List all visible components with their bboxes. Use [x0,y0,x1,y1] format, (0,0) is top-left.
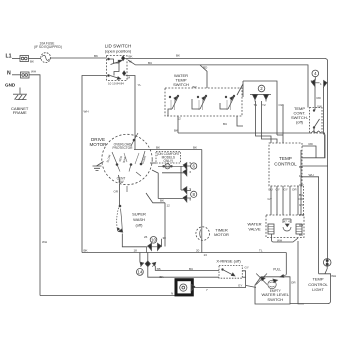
svg-text:1: 1 [320,82,322,86]
svg-text:GY: GY [238,283,242,287]
svg-text:BK: BK [156,146,160,150]
svg-text:GY: GY [245,266,249,270]
svg-text:BK: BK [160,275,164,279]
svg-text:OW: OW [279,103,284,107]
svg-text:SW: SW [118,180,123,184]
svg-text:PROTECTOR: PROTECTOR [113,146,134,150]
svg-text:YL: YL [138,83,142,87]
svg-text:L1: L1 [6,54,12,60]
svg-text:WH: WH [309,173,314,177]
svg-text:4: 4 [314,71,317,76]
svg-text:RD: RD [317,96,322,100]
svg-text:GY: GY [268,197,272,201]
svg-text:47: 47 [288,220,292,224]
svg-text:BU: BU [269,188,273,192]
svg-text:(off): (off) [135,223,143,228]
svg-text:(off): (off) [296,120,304,125]
svg-text:12: 12 [299,174,303,178]
svg-text:20: 20 [196,249,200,253]
svg-text:BK: BK [174,129,178,133]
svg-text:XB: XB [157,267,161,271]
svg-text:WH: WH [331,274,336,278]
svg-text:OR: OR [292,188,297,192]
svg-text:RD: RD [203,66,208,70]
svg-text:10 10 84 84: 10 10 84 84 [108,82,124,86]
svg-text:GY: GY [284,188,288,192]
svg-text:LIGHT: LIGHT [312,287,324,292]
svg-text:X-RINSE (off): X-RINSE (off) [216,259,241,264]
svg-text:GY: GY [276,188,280,192]
svg-text:N: N [7,71,11,77]
svg-text:PULL: PULL [273,268,281,272]
svg-text:30: 30 [163,236,167,240]
svg-text:TL: TL [259,248,263,252]
svg-text:BK: BK [84,249,88,253]
svg-text:BU: BU [148,61,152,65]
svg-text:FRAME: FRAME [13,110,27,115]
svg-text:BK: BK [176,53,180,57]
svg-text:OR: OR [114,190,119,194]
svg-text:12: 12 [167,203,171,207]
svg-text:CONTROL: CONTROL [274,161,297,166]
svg-text:6: 6 [192,164,195,169]
svg-text:RD: RD [299,223,304,227]
svg-text:26: 26 [144,235,148,239]
svg-text:18: 18 [134,249,138,253]
svg-text:(IF SO EQUIPPED): (IF SO EQUIPPED) [34,45,62,49]
svg-text:BK: BK [299,165,303,169]
svg-text:WH: WH [31,69,36,73]
svg-text:M: M [128,76,131,80]
svg-text:WH: WH [84,110,89,114]
svg-text:START: START [141,155,148,165]
svg-text:MOTOR: MOTOR [214,232,229,237]
svg-text:BK: BK [160,199,164,203]
svg-text:WH: WH [299,213,304,217]
svg-text:3W: 3W [192,85,197,89]
svg-text:9: 9 [190,187,192,191]
svg-text:(open position): (open position) [105,49,132,54]
svg-text:OR: OR [291,281,296,285]
svg-text:N: N [171,292,173,296]
svg-text:GY: GY [299,203,303,207]
svg-text:12: 12 [178,117,182,121]
svg-text:BU: BU [223,122,227,126]
svg-text:GND: GND [5,83,16,88]
svg-text:11: 11 [166,165,169,169]
svg-text:BK: BK [30,60,34,64]
svg-text:BK: BK [193,146,197,150]
svg-text:Y2: Y2 [262,103,266,107]
svg-text:SWITCH: SWITCH [267,297,283,302]
svg-text:2: 2 [260,86,263,91]
svg-text:BU: BU [189,267,193,271]
svg-text:T1: T1 [254,103,258,107]
svg-text:7: 7 [206,288,208,292]
svg-text:TEMP: TEMP [279,156,292,161]
svg-text:SW: SW [317,105,322,109]
svg-text:8: 8 [192,192,195,197]
svg-text:VALVE: VALVE [248,227,261,232]
svg-text:WH: WH [42,240,47,244]
svg-text:ONLY): ONLY) [164,159,174,163]
svg-text:BK: BK [129,55,133,59]
svg-text:6: 6 [190,170,192,174]
svg-text:BK: BK [299,233,303,237]
svg-text:SLOW: SLOW [105,154,111,163]
svg-text:47: 47 [284,220,288,224]
svg-text:BK: BK [94,54,98,58]
svg-text:8: 8 [190,198,192,202]
svg-text:13: 13 [204,253,208,257]
svg-text:WH: WH [277,239,282,243]
svg-text:RD: RD [309,142,314,146]
svg-text:SWITCH: SWITCH [173,82,189,87]
svg-text:SUPER: SUPER [132,212,146,217]
svg-text:MOTOR: MOTOR [89,142,107,147]
svg-text:M: M [129,60,132,64]
svg-text:OR: OR [299,197,304,201]
svg-text:14: 14 [138,269,143,274]
svg-text:10: 10 [151,237,156,242]
svg-text:WASH: WASH [133,217,145,222]
